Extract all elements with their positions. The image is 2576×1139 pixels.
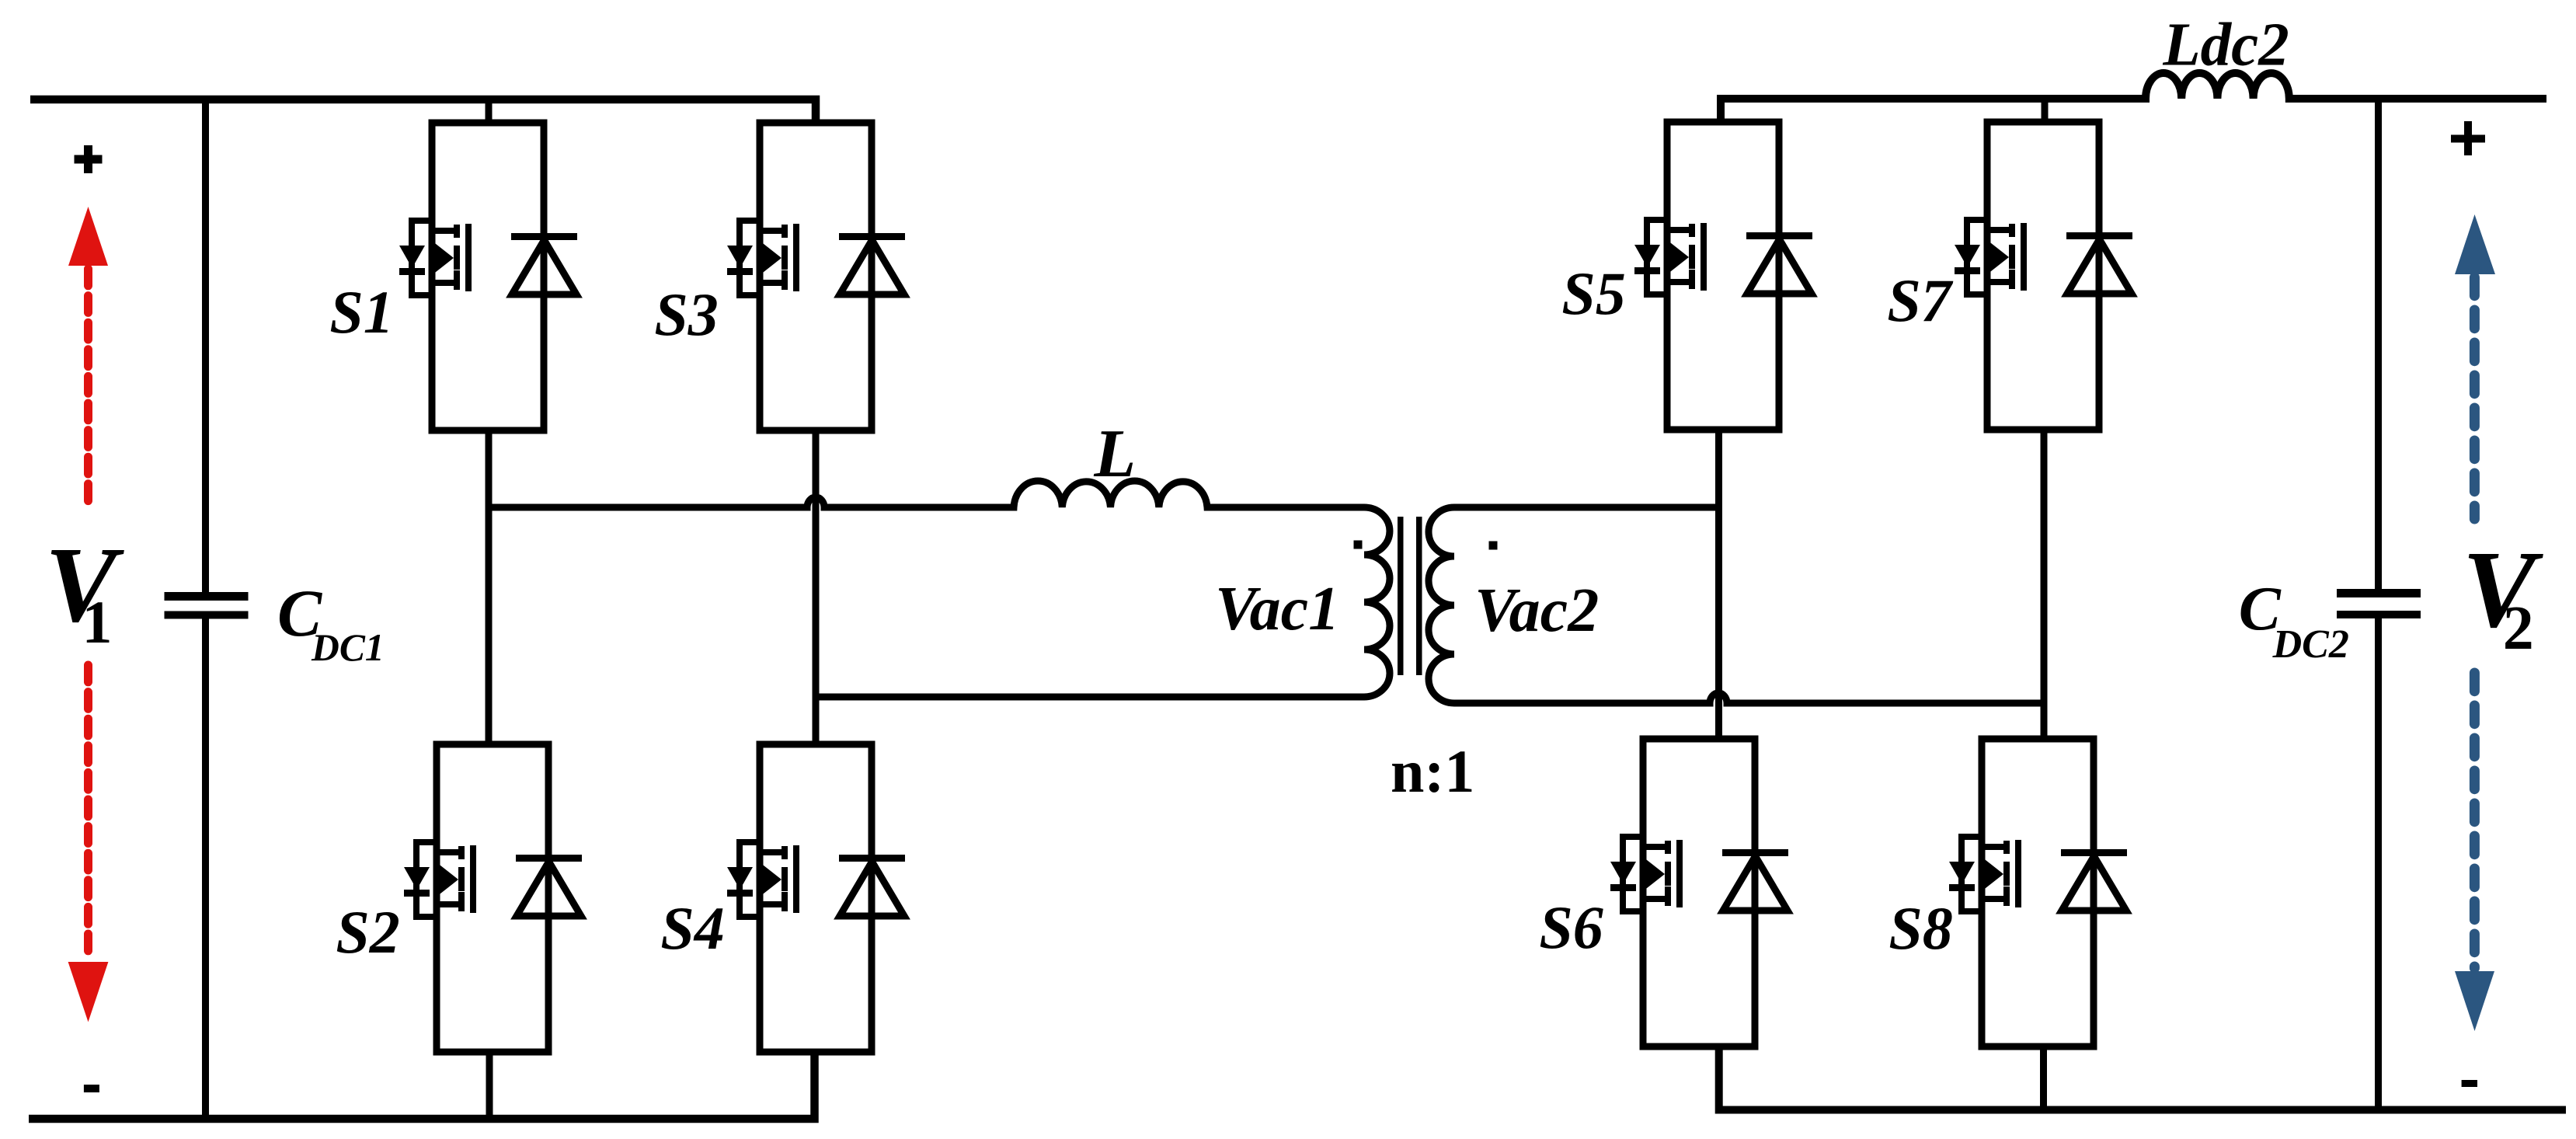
svg-text:Ldc2: Ldc2 — [2162, 12, 2289, 79]
svg-text:1: 1 — [82, 588, 113, 656]
svg-text:S5: S5 — [1561, 259, 1625, 327]
svg-text:2: 2 — [2503, 594, 2534, 663]
svg-text:DC1: DC1 — [311, 626, 385, 669]
svg-text:DC2: DC2 — [2272, 622, 2349, 667]
svg-text:Vac2: Vac2 — [1474, 576, 1599, 645]
svg-text:S7: S7 — [1887, 266, 1953, 334]
svg-text:S8: S8 — [1888, 894, 1952, 962]
svg-text:S6: S6 — [1539, 893, 1603, 961]
svg-text:S2: S2 — [336, 898, 399, 966]
svg-text:S3: S3 — [654, 280, 718, 348]
svg-text:S1: S1 — [329, 278, 393, 346]
svg-text:Vac1: Vac1 — [1215, 575, 1339, 643]
svg-text:S4: S4 — [660, 894, 724, 962]
svg-text:n:1: n:1 — [1391, 737, 1474, 805]
svg-text:L: L — [1093, 416, 1136, 492]
